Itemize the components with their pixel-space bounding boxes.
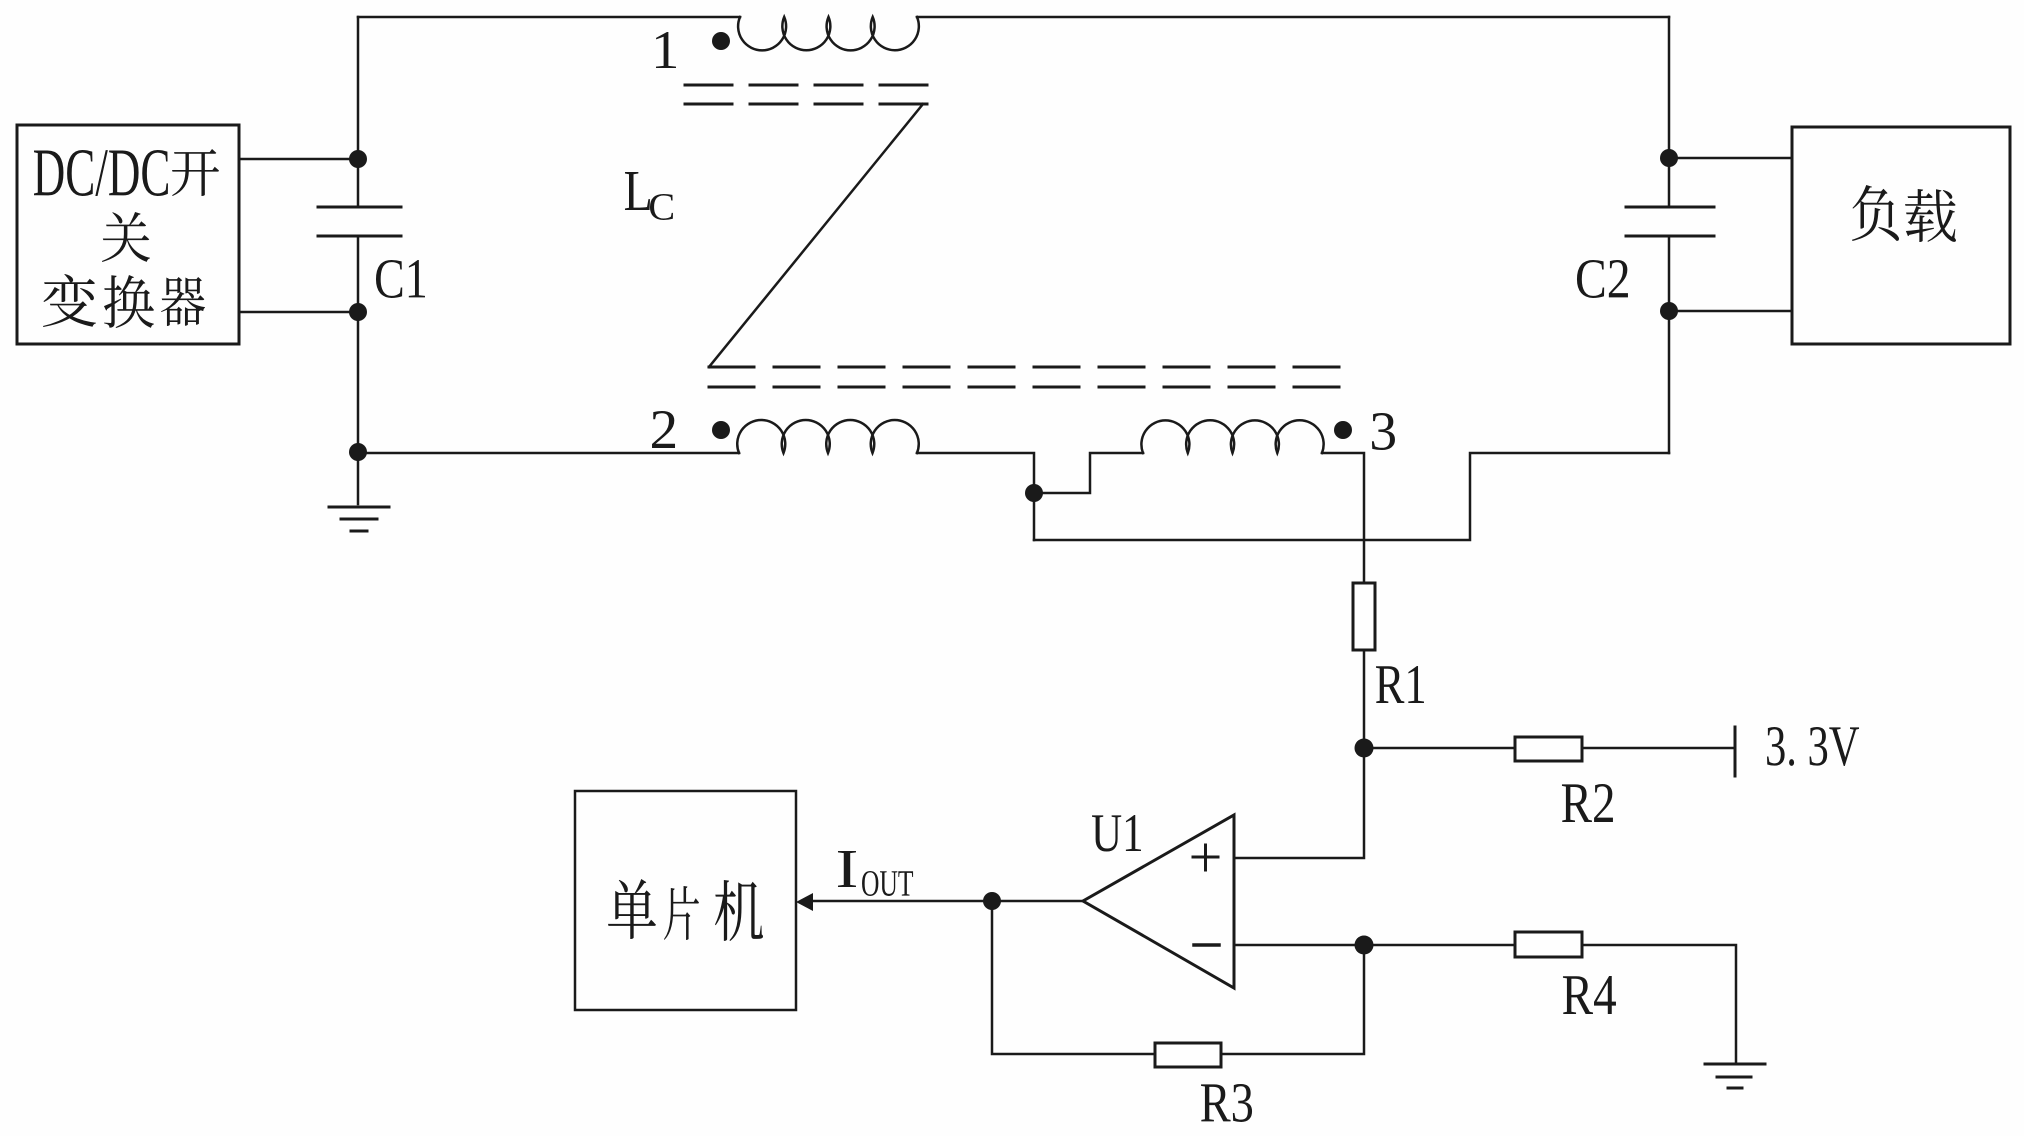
wire output down to R3 run [992, 901, 1155, 1054]
box MCU (single-chip machine) [575, 791, 796, 1010]
box load [1792, 127, 2010, 344]
wire op-amp output [813, 900, 1083, 903]
wire left vertical lower [357, 236, 360, 453]
core dashed line bottom row 1 [709, 366, 1344, 369]
load box text: zai [1905, 189, 1956, 242]
resistor R2 [1515, 737, 1582, 761]
node dot inverting input [1355, 936, 1374, 955]
wire R3 to inverting node [1221, 945, 1364, 1054]
op-amp - sign [1194, 943, 1219, 947]
MCU box text: pian [664, 886, 699, 940]
wire tap up-step to winding 3 [1034, 453, 1143, 493]
ground symbol left [329, 507, 389, 531]
wire node through R4 to ground [1364, 945, 1736, 1062]
label R4 [1563, 976, 1616, 1014]
node dot C1 top [349, 150, 367, 168]
Lc coupling diagonal (Z) [709, 104, 923, 367]
resistor R4 [1515, 932, 1582, 957]
DC/DC box text: qi [161, 277, 205, 326]
wire right vertical upper [1668, 17, 1671, 207]
label U1 [1092, 815, 1141, 851]
polarity dot winding 3 [1334, 421, 1352, 439]
node dot tap junction [1025, 484, 1043, 502]
wire C2 bottom to load [1669, 310, 1792, 313]
inductor winding 1 (top, Lc primary) [738, 17, 919, 50]
polarity dot winding 1 [712, 32, 730, 50]
arrowhead into MCU [796, 893, 813, 911]
box DC/DC converter [17, 125, 239, 344]
label R3 [1201, 1084, 1252, 1122]
wire top rail left segment [358, 16, 740, 19]
DC/DC box text: guan [102, 212, 150, 262]
wire R1 to node [1363, 650, 1366, 748]
label C2 [1577, 260, 1628, 298]
DC/DC box text: kai [172, 149, 219, 196]
wire left vertical to ground [357, 453, 360, 504]
label Lc subscript [650, 194, 673, 220]
core dashed line top row 2 [685, 103, 930, 106]
label terminal 3 [1372, 413, 1395, 450]
node dot bottom-left rail [349, 443, 367, 461]
inductor winding 3 [1141, 420, 1323, 453]
wire winding2 to tap step [917, 453, 1034, 540]
wire - input to node [1234, 944, 1364, 947]
node dot R1/R2/+ [1355, 739, 1374, 758]
load box text: fu [1852, 185, 1899, 241]
wire tap lower run to right riser [1034, 453, 1669, 540]
capacitor C2 [1626, 207, 1714, 236]
resistor R3 [1155, 1043, 1221, 1067]
wire node to 3.3V terminal [1364, 747, 1735, 750]
polarity dot winding 2 [712, 421, 730, 439]
core dashed line top row 1 [685, 84, 930, 87]
inductor winding 2 [737, 420, 918, 453]
node dot C2 bottom [1660, 302, 1678, 320]
capacitor C1 [318, 207, 401, 236]
label C1 [376, 260, 425, 298]
label 3.3V supply [1767, 727, 1859, 766]
wire winding3 to R1 [1322, 453, 1364, 583]
wire node down to + input [1234, 748, 1364, 858]
wire right vertical lower [1668, 236, 1671, 453]
ground symbol right [1705, 1064, 1765, 1088]
wire left vertical upper [357, 17, 360, 207]
label Iout subscript OUT [862, 871, 913, 896]
label DC/DC (line 1 latin part) [34, 150, 168, 196]
wire DC/DC upper output [239, 158, 358, 161]
DC/DC box text: bian [43, 274, 96, 327]
label Lc main [625, 172, 650, 210]
node dot C1 bottom [349, 303, 367, 321]
wire C2 top to load [1669, 157, 1792, 160]
node dot C2 top [1660, 149, 1678, 167]
wire DC/DC lower output [239, 311, 358, 314]
op-amp + sign [1193, 845, 1218, 870]
MCU box text: dan [608, 879, 656, 939]
op-amp U1 triangle [1083, 815, 1234, 988]
3.3V terminal bar [1734, 727, 1737, 776]
label R2 [1562, 784, 1613, 822]
wire bottom rail left [358, 452, 739, 455]
label Iout I [838, 851, 856, 887]
resistor R1 [1353, 583, 1375, 650]
MCU box text: ji [715, 880, 763, 941]
core dashed line bottom row 2 [709, 386, 1344, 389]
label R1 [1376, 666, 1424, 703]
label terminal 1 [656, 32, 676, 68]
DC/DC box text: huan [104, 275, 154, 328]
node dot output [983, 892, 1001, 910]
label terminal 2 [652, 411, 675, 448]
wire top rail right segment [917, 16, 1669, 19]
